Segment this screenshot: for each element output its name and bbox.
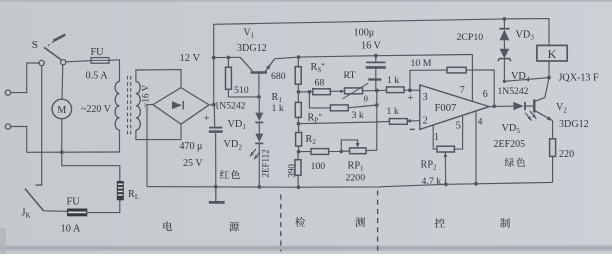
capacitor C2 stem3	[375, 80, 377, 91]
wire pin5	[454, 116, 462, 149]
diode VD1 zener	[255, 113, 263, 122]
svg-text:JQX-13 F: JQX-13 F	[559, 73, 599, 84]
fuse FU2 10A body	[67, 209, 87, 217]
led VD2 arrows	[250, 149, 256, 156]
wire 510 stems	[227, 58, 229, 68]
resistor R1 body	[295, 102, 301, 117]
wire JK to fuse FU2	[44, 210, 67, 213]
wire bridge minus to ground	[147, 105, 153, 187]
fuse FU1 0.5A body	[91, 58, 109, 64]
wire 680 stems	[297, 57, 299, 67]
diode VD3	[499, 28, 509, 30]
svg-text:1 k: 1 k	[272, 103, 284, 114]
transistor V1 emitter	[265, 59, 275, 72]
capacitor C2 plate2	[366, 66, 386, 69]
heater RL stripes	[118, 183, 123, 185]
svg-text:1 k: 1 k	[387, 75, 399, 86]
svg-text:3DG12: 3DG12	[237, 43, 267, 54]
svg-text:4: 4	[478, 117, 483, 128]
fuse FU1 element line	[91, 59, 109, 61]
resistor 510 body	[226, 67, 232, 89]
pot RP2 body	[437, 146, 455, 152]
wire secondary bottom to bridge	[136, 124, 181, 139]
resistor 10M wire left	[410, 70, 447, 90]
svg-text:S: S	[32, 39, 38, 51]
row 151 wire	[299, 150, 350, 153]
svg-text:12 V: 12 V	[180, 53, 201, 64]
wire 220 to ground	[552, 156, 554, 182]
ground symbol	[215, 187, 217, 202]
divider power/detect	[280, 195, 282, 252]
svg-text:10 A: 10 A	[61, 224, 81, 235]
minus row wire	[299, 121, 390, 123]
capacitor C1 plate1	[209, 127, 222, 129]
resistor 100 body	[311, 149, 329, 155]
wire VD2 to ground	[258, 143, 260, 187]
label control section	[435, 218, 445, 228]
svg-text:1: 1	[434, 132, 439, 143]
wire pin4	[475, 111, 477, 184]
capacitor C2 plate3	[368, 78, 381, 80]
wire RP right	[348, 105, 377, 108]
svg-text:1 k: 1 k	[387, 106, 399, 117]
wire 12V rail segment A	[214, 56, 241, 58]
motor M circle	[52, 99, 72, 119]
junction mid RP	[375, 103, 379, 107]
wire VD5 to base	[525, 105, 534, 107]
svg-text:RT: RT	[344, 70, 356, 81]
wire motor branch	[61, 65, 64, 99]
heater RL body	[117, 181, 124, 200]
svg-text:3: 3	[423, 92, 428, 103]
svg-text:+: +	[407, 92, 413, 104]
wire VD1 to VD2	[258, 122, 260, 133]
terminal input N	[5, 124, 10, 129]
svg-text:680: 680	[271, 71, 286, 82]
ground rail	[147, 182, 553, 187]
wire relay bottom	[548, 61, 550, 78]
wire rail to RL top	[62, 152, 120, 181]
junction relay node	[547, 76, 551, 80]
junction RS RT	[340, 90, 343, 93]
capacitor C2 stem2	[375, 67, 377, 79]
svg-text:6: 6	[483, 89, 488, 100]
junction RP drop	[308, 90, 312, 94]
junction RP1 wiper	[339, 150, 343, 154]
transistor V2 collector	[535, 78, 549, 102]
wire pin1	[433, 125, 437, 149]
resistor 390 body	[295, 160, 301, 176]
resistor 220 body	[550, 139, 556, 157]
junction 12V rail	[212, 56, 216, 60]
svg-text:3 k: 3 k	[352, 110, 364, 121]
svg-text:16 V: 16 V	[361, 41, 382, 52]
transistor V1 base bar	[251, 71, 267, 73]
transistor V2 emitter	[535, 111, 553, 121]
svg-text:2CP10: 2CP10	[457, 32, 484, 43]
wire emitter to 220	[552, 121, 554, 139]
diode VD5 led	[513, 102, 523, 110]
switch S blade	[44, 47, 61, 59]
wire plus node down to cap	[213, 105, 215, 127]
pot RP1 wiper	[341, 140, 357, 152]
pot RP2 wiper	[444, 153, 448, 157]
svg-text:θ: θ	[364, 94, 368, 104]
switch S linkage dashed	[48, 40, 55, 46]
diode VD4 zener	[500, 49, 510, 58]
svg-text:2EF205: 2EF205	[494, 139, 526, 150]
wire from terminal L to switch S	[11, 63, 39, 93]
junction VD2 ground	[257, 185, 261, 189]
svg-text:K: K	[548, 47, 557, 61]
thermistor RT strike	[343, 83, 369, 99]
svg-text:220: 220	[559, 149, 574, 160]
wire FU2 to RL	[87, 200, 120, 212]
junction C2 top	[374, 54, 378, 58]
terminal input L	[5, 90, 10, 95]
resistor 1k1 body	[387, 87, 405, 93]
diode VD3 stem	[503, 19, 505, 29]
wire 12V regulated rail	[275, 55, 473, 59]
transformer secondary coil	[136, 82, 140, 130]
junction 1k2 right	[408, 119, 411, 122]
wire 510 to base node	[228, 96, 259, 98]
wire fuse to transformer primary	[109, 60, 120, 82]
wire switch to fuse FU1	[66, 61, 91, 62]
wire base node down	[258, 97, 260, 113]
wire output	[489, 105, 513, 108]
label detect section	[295, 217, 305, 227]
wire 390 stems	[297, 152, 299, 160]
switch S right contact	[61, 60, 66, 65]
wire motor to rail	[61, 119, 63, 152]
junction RP2 ground	[444, 182, 448, 186]
capacitor C2 100u stem	[375, 56, 377, 62]
mid vertical node	[366, 91, 377, 151]
junction top line VD3	[503, 17, 507, 21]
capacitor C1 plate2	[209, 130, 223, 133]
wire secondary top to bridge	[136, 70, 181, 88]
wire R1 stems	[297, 92, 299, 103]
relay K box	[537, 45, 567, 61]
switch S left contact	[39, 60, 44, 65]
svg-text:2200: 2200	[346, 173, 366, 184]
led VD5 arrows	[525, 113, 531, 121]
svg-text:2: 2	[423, 115, 428, 126]
resistor 680 body	[295, 67, 301, 85]
wire pin7 supply	[471, 55, 473, 102]
resistor 10M wire right	[466, 70, 494, 106]
row A wire	[299, 90, 404, 92]
wire from terminal N to bottom rail	[11, 127, 120, 153]
wire R2 stems	[298, 124, 300, 133]
bridge internal diode	[172, 101, 182, 109]
svg-text:M: M	[57, 105, 66, 116]
capacitor C2 plate1	[366, 61, 385, 63]
resistor 10M body	[447, 67, 466, 73]
svg-text:7: 7	[460, 85, 465, 96]
wire top line	[214, 19, 549, 58]
junction cap ground	[214, 185, 218, 189]
svg-text:3DG12: 3DG12	[559, 119, 589, 130]
label power section	[163, 221, 172, 231]
svg-text:390: 390	[286, 164, 296, 178]
wire VD3 VD4	[503, 40, 505, 49]
svg-text:10 M: 10 M	[411, 58, 432, 69]
RP bracket	[309, 92, 330, 108]
junction R1 bottom	[297, 122, 301, 126]
svg-text:F007: F007	[435, 103, 457, 114]
relay contact JK blade	[25, 189, 44, 211]
svg-text:4.7 k: 4.7 k	[422, 176, 442, 187]
resistor R2 body	[296, 133, 302, 147]
junction 510 top	[227, 56, 231, 60]
svg-text:5: 5	[456, 120, 461, 131]
switch S actuator bar	[53, 35, 65, 41]
svg-text:+: +	[204, 114, 210, 125]
svg-text:0.5 A: 0.5 A	[86, 71, 109, 82]
junction 680 top	[297, 55, 301, 59]
diode VD2 led	[255, 134, 263, 143]
svg-text:1N5242: 1N5242	[215, 101, 246, 112]
junction V1 base node	[257, 95, 261, 99]
junction 10M tap	[408, 88, 412, 92]
svg-text:~220 V: ~220 V	[81, 104, 112, 115]
divider detect/control	[377, 191, 379, 253]
svg-text:68: 68	[315, 78, 325, 89]
transistor V1 base lead	[258, 73, 260, 97]
op-amp minus sign	[410, 128, 415, 130]
resistor 1k2 body	[389, 119, 407, 125]
pot RP body	[330, 105, 348, 111]
wire primary bottom	[119, 130, 121, 152]
svg-text:FU: FU	[91, 47, 105, 58]
svg-text:2EF112: 2EF112	[260, 149, 270, 177]
svg-text:25 V: 25 V	[183, 158, 203, 169]
junction 390 ground	[297, 185, 301, 189]
wire cap to ground	[215, 132, 217, 186]
op-amp U1 triangle	[420, 85, 489, 129]
transistor V1 collector	[240, 57, 252, 71]
transistor V2 base bar	[533, 99, 535, 112]
resistor RS body	[313, 89, 331, 95]
junction bridge plus	[212, 103, 216, 107]
svg-text:1N5242: 1N5242	[498, 86, 529, 97]
bridge rectifier diamond	[153, 88, 209, 125]
wire VD4 to relay node	[504, 59, 549, 82]
relay contact JK fixed tick	[36, 184, 43, 186]
junction row A left	[297, 90, 301, 94]
junction pin4 ground	[474, 182, 478, 186]
junction R2 bottom	[297, 150, 301, 154]
transformer primary coil	[115, 82, 119, 130]
svg-text:FU: FU	[67, 196, 81, 207]
transformer core	[127, 76, 129, 135]
label green color	[505, 158, 514, 167]
svg-text:100: 100	[311, 161, 326, 172]
wire 1k1 to opamp	[404, 89, 420, 91]
wire 1k2 to opamp	[407, 120, 420, 123]
junction mid top	[375, 89, 379, 93]
fuse FU2 stripe	[68, 211, 86, 213]
svg-text:470 μ: 470 μ	[180, 141, 203, 152]
svg-text:100μ: 100μ	[354, 27, 375, 38]
svg-text:510: 510	[234, 85, 249, 96]
label red color	[220, 170, 229, 179]
junction motor bottom	[60, 150, 64, 154]
wire plus node up to 12V rail	[213, 58, 215, 105]
wire JK branch vertical	[41, 66, 43, 186]
wire bridge plus	[209, 104, 214, 106]
thermistor RT body	[345, 88, 363, 94]
pot RP1 body	[350, 148, 366, 154]
junction output	[492, 104, 496, 108]
